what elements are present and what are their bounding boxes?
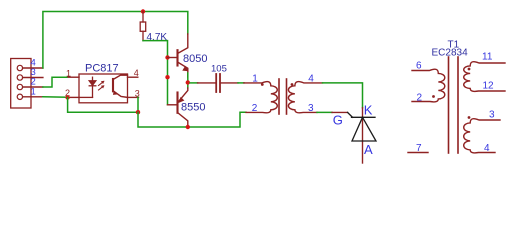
svg-text:8050: 8050 xyxy=(183,53,207,65)
transistor Q1 emitter arrow xyxy=(182,66,189,72)
transformer T2 core xyxy=(279,79,287,114)
connector J1 body xyxy=(11,59,31,109)
svg-text:4: 4 xyxy=(134,68,139,78)
transformer T1 secondary winding top (pins 11,12) xyxy=(464,62,505,92)
wire: ground rail lower run to transformer pin2 xyxy=(138,112,246,127)
svg-text:7: 7 xyxy=(416,143,422,154)
wire: +V rail from connector pin4 up and across top xyxy=(43,12,188,69)
svg-text:A: A xyxy=(364,142,373,157)
svg-text:3: 3 xyxy=(135,88,140,98)
optocoupler U1 internal LED xyxy=(79,77,96,97)
wire: resistor bottom to transistor bases xyxy=(143,41,168,105)
svg-text:G: G xyxy=(333,113,343,128)
wire: emitter node to capacitor xyxy=(190,82,198,84)
transformer T1 secondary top phase dot xyxy=(468,68,471,71)
svg-text:4: 4 xyxy=(484,143,490,154)
capacitor C1 xyxy=(198,74,238,92)
optocoupler U1 PC817 box xyxy=(79,74,128,103)
svg-text:11: 11 xyxy=(482,52,493,63)
node: ground at 8550 collector xyxy=(186,125,190,129)
transformer T1 primary winding (pins 6,2) xyxy=(412,69,445,102)
transformer T2 primary winding (pins 1,2) xyxy=(244,82,277,113)
connector J1 pin leads xyxy=(23,68,43,97)
SCR D1 symbol (black) xyxy=(348,112,377,141)
wire: ground run from opto pin2 down and right xyxy=(68,98,138,113)
SCR D1 cathode lead xyxy=(362,108,364,118)
svg-text:12: 12 xyxy=(483,81,495,92)
junction node at resistor top xyxy=(141,9,145,13)
SCR D1 gate lead xyxy=(332,111,348,113)
svg-text:105: 105 xyxy=(211,64,227,75)
transformer T2 secondary winding (pins 4,3) xyxy=(288,82,322,113)
optocoupler U1 pin 3 lead xyxy=(128,96,139,98)
connector J1 pin circles xyxy=(17,65,22,99)
node: opto pin2 junction xyxy=(65,95,69,99)
transformer T1 secondary bottom phase dot xyxy=(468,116,471,119)
transformer T1 pin 7 stub xyxy=(408,152,428,154)
optocoupler U1 phototransistor emitter arrow xyxy=(113,91,118,95)
optocoupler U1 pin 4 lead xyxy=(128,76,138,78)
wire: 8050 emitter to node xyxy=(187,73,189,81)
node: opto pin4 junction xyxy=(165,75,169,79)
svg-text:8550: 8550 xyxy=(181,101,205,113)
optocoupler U1 light arrows xyxy=(99,82,104,91)
wire: transformer T2 pin4 to SCR cathode xyxy=(323,83,363,108)
svg-text:6: 6 xyxy=(416,61,422,72)
svg-text:1: 1 xyxy=(252,73,258,84)
transformer T2 secondary phase dot xyxy=(291,83,294,86)
wire: connector pin1 to opto pin2 xyxy=(43,96,68,98)
transformer T1 secondary winding bottom (pins 3,4) xyxy=(464,119,500,153)
svg-text:3: 3 xyxy=(489,110,495,121)
svg-text:1: 1 xyxy=(31,87,36,98)
transformer T2 primary phase dot xyxy=(261,83,264,86)
transistor Q2 emitter arrow (PNP, points into bar) xyxy=(178,97,184,103)
optocoupler U1 phototransistor xyxy=(113,75,128,97)
transformer T1 core xyxy=(449,57,459,153)
optocoupler U1 pin 2 lead xyxy=(68,96,79,98)
transformer T1 primary phase dot xyxy=(432,95,435,98)
wire: opto pin3 down to ground rail xyxy=(137,97,139,112)
svg-text:2: 2 xyxy=(252,103,258,114)
optocoupler U1 pin 1 lead xyxy=(67,76,79,78)
svg-text:K: K xyxy=(364,102,373,117)
transistor Q1 8050 xyxy=(168,34,188,77)
wire: connector pin2 to opto pin1 (jog) xyxy=(43,77,67,87)
svg-text:EC2834: EC2834 xyxy=(432,48,469,59)
SCR D1 anode lead xyxy=(362,117,364,163)
resistor R1 4.7K body xyxy=(140,12,146,41)
node: base of 8050 junction xyxy=(165,55,169,59)
wire: transformer T2 pin3 to SCR gate xyxy=(317,111,332,113)
node: emitter output junction xyxy=(186,80,190,84)
wire: node to 8550 emitter xyxy=(187,85,189,89)
node: ground rail junction at opto pin3 xyxy=(136,110,140,114)
svg-text:3: 3 xyxy=(308,103,314,114)
svg-text:4: 4 xyxy=(308,73,314,84)
svg-text:2: 2 xyxy=(417,93,423,104)
wire: capacitor to transformer T2 pin1 xyxy=(238,82,244,84)
transistor Q2 8550 xyxy=(168,88,188,127)
svg-text:PC817: PC817 xyxy=(85,63,119,75)
